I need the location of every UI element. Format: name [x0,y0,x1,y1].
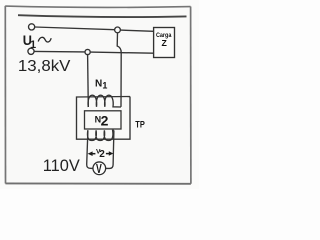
wire: node B down to primary, hop over bottom conductor [117,33,121,107]
primary coil N1 [88,95,121,107]
wire: node D down to primary left [87,55,90,107]
wire: U1 bottom terminal to node D [34,50,85,53]
transformer TP outer box [77,97,131,140]
node D junction circle [85,49,90,54]
terminal circle: source U1 top [29,24,35,30]
wire: node D to Carga Z bottom entry [90,52,153,53]
AC tilde symbol [38,37,51,42]
wire: node B to Carga Z top entry [120,30,153,31]
wire: U1 top terminal to node B [35,27,115,30]
figure frame [5,6,191,184]
node B junction circle [115,27,121,33]
svg-text:13,8kV: 13,8kV [18,58,71,75]
svg-text:2: 2 [99,149,105,160]
voltmeter V [93,162,106,175]
wire: secondary right down to voltmeter [106,130,114,168]
wire: secondary left down to voltmeter [87,130,93,168]
svg-text:V: V [96,161,102,176]
svg-text:Z: Z [162,38,168,48]
svg-text:TP: TP [135,119,145,130]
transformer inner box (secondary) [85,111,122,129]
secondary coil N2 [87,130,113,140]
svg-text:2: 2 [101,113,109,129]
load box Carga Z [154,28,175,58]
svg-text:N: N [95,78,102,89]
svg-text:110V: 110V [43,156,81,175]
terminal circle: source U1 bottom [28,48,34,54]
svg-text:1: 1 [102,80,107,90]
V2 measurement double arrow, right head [106,153,110,155]
wire: top feeder conductor [18,15,187,17]
V2 measurement double arrow, left head [88,151,93,156]
